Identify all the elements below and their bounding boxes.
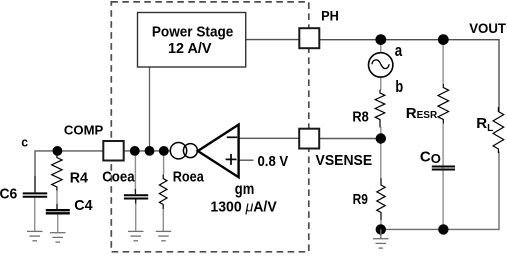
gm input bubble 1 [170,143,186,159]
junction dot Roea [159,146,169,156]
svg-text:Roea: Roea [173,168,205,185]
svg-text:COMP: COMP [64,122,104,137]
svg-text:0.8 V: 0.8 V [258,153,289,170]
svg-text:Coea: Coea [102,168,135,185]
junction dot power stage feed [145,146,155,156]
svg-text:gm: gm [235,181,255,198]
svg-text:CO: CO [420,148,441,166]
pad PH [299,28,319,48]
svg-text:R9: R9 [353,191,368,208]
ground below C6 [27,231,43,240]
ac source sine wave [372,60,389,69]
capacitor C4 [46,210,70,213]
wire VSENSE pad to R8/R9 node [319,138,381,140]
svg-text:PH: PH [321,8,339,23]
svg-text:c: c [21,134,28,149]
power stage block U1 [138,13,246,68]
junction dot Coea [130,146,140,156]
wire RESR branch stems [442,40,444,84]
svg-text:a: a [395,41,403,60]
wire RL lower stem [443,152,499,230]
ground below Coea [128,231,144,240]
svg-text:R8: R8 [352,108,368,125]
wire Roea stems [163,151,165,175]
svg-text:C4: C4 [74,197,93,214]
dashed IC boundary box [111,2,308,252]
svg-text:b: b [395,77,403,96]
resistor R9 [377,178,385,220]
wire R4 to C4 stem [56,191,58,205]
wire ac source branch stems [380,40,382,53]
junction dot PH rail a [375,34,386,45]
capacitor C6 [23,193,48,196]
junction dot PH rail RESR [438,34,449,45]
ground below C4 [50,233,65,242]
resistor R4 [52,152,62,191]
wire top rail PH to VOUT corner [319,40,499,112]
resistor R8 [375,90,385,128]
svg-text:R4: R4 [70,170,89,187]
minus sign [227,136,237,138]
svg-text:C6: C6 [0,186,17,203]
wire C4 black top lead [56,204,58,209]
ac source V1 circle [369,53,393,77]
wire power stage to PH pad [246,39,300,41]
wire COMP left branch [35,151,103,176]
junction dot COMP node 1 [53,146,63,156]
svg-text:12 A/V: 12 A/V [168,40,212,57]
svg-text:Power Stage: Power Stage [152,24,234,41]
resistor RL [493,107,504,153]
wire R8 to VSENSE node stem [380,127,382,139]
svg-text:VSENSE: VSENSE [316,152,373,169]
wire C6 stem [34,198,36,232]
wire R9 stems [380,139,382,179]
resistor Roea [159,175,167,210]
ground below Roea [156,231,172,240]
svg-text:1300 μA/V: 1300 μA/V [210,199,276,216]
ground below R9 [373,229,389,248]
junction dot CO bottom [438,224,448,234]
capacitor CO [432,167,455,170]
wire Coea stems [134,151,136,189]
wire C6 black top lead [34,176,36,192]
svg-text:VOUT: VOUT [469,20,506,36]
capacitor Coea [124,195,148,198]
pad VSENSE [299,129,319,149]
wire gm minus input to VSENSE pad [239,137,300,139]
junction dot VSENSE node [376,133,386,143]
op-amp gm triangle [198,125,239,178]
pad COMP [103,141,123,161]
plus sign [226,158,237,160]
wire gm plus input stub [239,159,254,161]
wire COMP pad to gm bubbles [124,150,171,152]
wire power stage down to COMP node [149,67,151,151]
gm input bubble 2 [183,144,197,158]
junction dot R9 ground [376,224,386,234]
wire bottom rail ground to CO [381,228,444,230]
resistor RESR [438,84,449,124]
